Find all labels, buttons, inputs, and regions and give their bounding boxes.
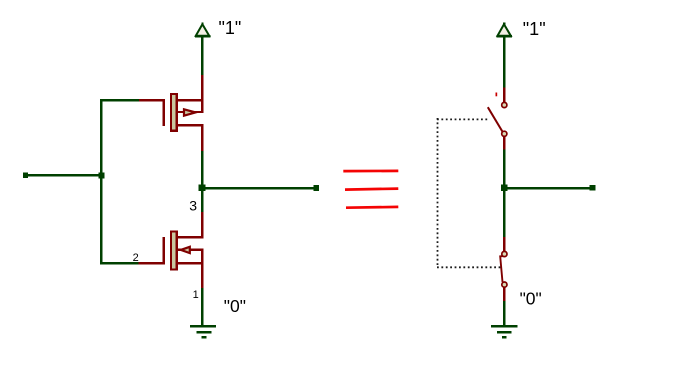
wire gate bus to NMOS gate (green part) <box>100 262 139 264</box>
PMOS source lead (top horizontal) <box>177 99 204 101</box>
svg-text:"0": "0" <box>224 296 246 316</box>
wire gate bus to PMOS gate (green part) <box>100 99 139 101</box>
gate bus vertical wire <box>100 99 102 265</box>
svg-text:"1": "1" <box>523 19 546 39</box>
NMOS gate plate <box>162 237 165 264</box>
PMOS source pin vertical (maroon) <box>201 75 203 113</box>
output wire (left circuit) <box>202 187 317 190</box>
SW1 top contact circle <box>502 102 507 107</box>
svg-text:3: 3 <box>189 198 197 214</box>
wire VCC to PMOS (green segment) <box>201 37 203 76</box>
right node junction square <box>501 185 508 192</box>
input wire <box>25 174 102 177</box>
input wire end square <box>23 173 28 178</box>
SW1 lever (open) <box>488 107 503 132</box>
NMOS source pin vertical (maroon) <box>201 249 203 288</box>
dotted linkage vertical <box>437 118 439 267</box>
svg-text:2: 2 <box>133 252 139 264</box>
output wire (right circuit) <box>504 187 593 190</box>
PMOS bulk arrow (points right) <box>184 109 196 115</box>
PMOS drain lead (bottom horizontal) <box>177 124 204 126</box>
ground (right) <box>491 325 517 339</box>
SW1 bottom contact circle <box>502 131 507 136</box>
SW1 pin to node (maroon) <box>503 137 505 149</box>
NMOS channel bar Q2 <box>171 232 177 270</box>
PMOS bulk lead <box>177 111 204 113</box>
power terminal "1" (right VCC arrow) <box>496 23 512 38</box>
wire SW1 to node (green) <box>503 149 505 184</box>
wire node to NMOS drain (green) <box>201 190 203 212</box>
svg-text:1: 1 <box>193 289 199 301</box>
input junction square <box>99 173 105 179</box>
NMOS gate pin (maroon part) <box>139 262 165 264</box>
SW2 lever (closed) <box>500 256 503 282</box>
svg-text:"0": "0" <box>520 289 542 309</box>
SW1 red actuation tick <box>496 93 498 97</box>
wire NMOS source to ground (green) <box>201 288 203 326</box>
dotted linkage top horizontal <box>437 118 488 120</box>
dotted linkage bottom horizontal <box>437 266 501 268</box>
PMOS gate pin (maroon part) <box>139 99 165 101</box>
wire VCC to switch SW1 (green) <box>503 37 505 87</box>
wire node to SW2 (green) <box>503 190 505 237</box>
SW2 bottom contact circle <box>502 282 507 287</box>
SW1 pin (maroon) <box>503 88 505 103</box>
svg-text:"1": "1" <box>219 18 242 38</box>
PMOS gate plate <box>162 99 165 126</box>
NMOS drain lead (top horizontal) <box>177 236 204 238</box>
SW2 top contact circle <box>502 251 507 256</box>
right output end square <box>590 185 596 191</box>
power terminal "1" (left VCC arrow) <box>195 23 211 38</box>
wire SW2 to ground (green) <box>503 301 505 325</box>
wire PMOS drain to output node (green) <box>201 151 203 185</box>
SW2 pin to ground (maroon) <box>503 288 505 302</box>
NMOS drain pin vertical (maroon) <box>201 212 203 238</box>
PMOS channel bar Q1 <box>171 94 177 131</box>
NMOS bulk arrow (points left) <box>181 247 190 253</box>
ground (left) <box>190 325 216 339</box>
output wire end square <box>314 185 320 191</box>
SW2 pin (maroon) <box>503 237 505 251</box>
equivalence symbol (three red lines) <box>343 171 398 208</box>
NMOS source lead (bottom horizontal) <box>177 262 202 264</box>
node 3 junction square <box>199 185 206 192</box>
PMOS drain pin vertical (maroon) <box>201 124 203 151</box>
NMOS bulk lead <box>177 249 204 251</box>
